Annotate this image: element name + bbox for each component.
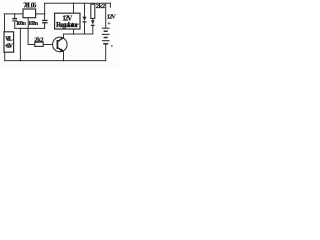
module 12V Regulator box xyxy=(55,13,80,29)
wire PSU box bottom lead xyxy=(4,52,6,60)
transistor Q1 collector stroke xyxy=(57,38,63,42)
regulator IC1 78L06 box xyxy=(23,9,36,18)
wire 78L06 ground pin lead xyxy=(27,18,29,29)
resistor R2 2k2 box xyxy=(35,42,43,46)
svg-text:12V: 12V xyxy=(107,13,117,20)
wire base resistor to ground rail xyxy=(27,28,29,44)
wire bottom rail xyxy=(5,60,106,62)
transistor Q1 emitter stroke xyxy=(57,48,63,52)
svg-text:100n: 100n xyxy=(28,20,39,27)
svg-text:+: + xyxy=(107,21,110,27)
svg-text:2k2: 2k2 xyxy=(96,3,106,10)
capacitor C2 100n output bottom lead xyxy=(44,23,46,28)
wire regulator top lead xyxy=(73,3,75,13)
svg-text:78L06: 78L06 xyxy=(23,1,37,9)
wire battery positive lead xyxy=(105,3,107,28)
transistor Q1 emitter arrow xyxy=(60,49,64,52)
svg-text:Regulator: Regulator xyxy=(56,21,79,29)
svg-text:2k2: 2k2 xyxy=(34,36,44,43)
diode D1 xyxy=(83,17,87,22)
label - (battery polarity) xyxy=(111,45,113,47)
capacitor C1 100n input leads xyxy=(14,14,16,18)
diode D2 xyxy=(91,20,95,25)
svg-text:VEL: VEL xyxy=(5,36,13,42)
wire 78L06 output to cap node xyxy=(36,13,45,15)
wire battery negative lead xyxy=(105,44,107,61)
transistor Q1 base bar xyxy=(56,40,58,49)
node emitter bottom rail junction xyxy=(63,60,64,61)
wire input rail to 78L06 input xyxy=(4,13,23,15)
resistor R1 2k2 box xyxy=(91,4,95,18)
node regulator top junction xyxy=(73,3,74,4)
wire resistor R1 top lead xyxy=(92,2,94,5)
node ground link top junction xyxy=(20,28,21,29)
wire regulator bottom lead xyxy=(73,29,75,34)
PSU input box xyxy=(4,32,14,52)
wire collector node rail xyxy=(63,33,92,35)
wire top rail end stub xyxy=(109,3,111,7)
wire left vertical from input rail down to PSU box xyxy=(4,14,6,32)
wire ground link to bottom rail xyxy=(19,28,21,60)
capacitor C1 100n plates xyxy=(12,18,17,22)
transistor Q1 circle xyxy=(53,37,68,52)
battery BT1 12V cell stack xyxy=(102,28,110,44)
svg-text:+12V: +12V xyxy=(5,43,14,49)
node output/rail junction xyxy=(44,13,46,15)
diode D1 leads xyxy=(84,3,86,16)
wire collector vertical xyxy=(63,34,65,38)
node collector rail junction xyxy=(73,33,74,34)
wire ground mid rail xyxy=(15,27,45,29)
wire output node vertical xyxy=(44,3,46,20)
wire emitter to bottom rail xyxy=(63,51,65,60)
diode D2 leads xyxy=(92,18,94,20)
capacitor C2 100n plates xyxy=(42,20,48,24)
wire top rail xyxy=(45,2,111,4)
svg-text:100n: 100n xyxy=(16,20,27,27)
wire base resistor to transistor base xyxy=(43,44,53,46)
node ground link bottom junction xyxy=(20,60,21,61)
node cap1/rail junction xyxy=(14,13,16,15)
